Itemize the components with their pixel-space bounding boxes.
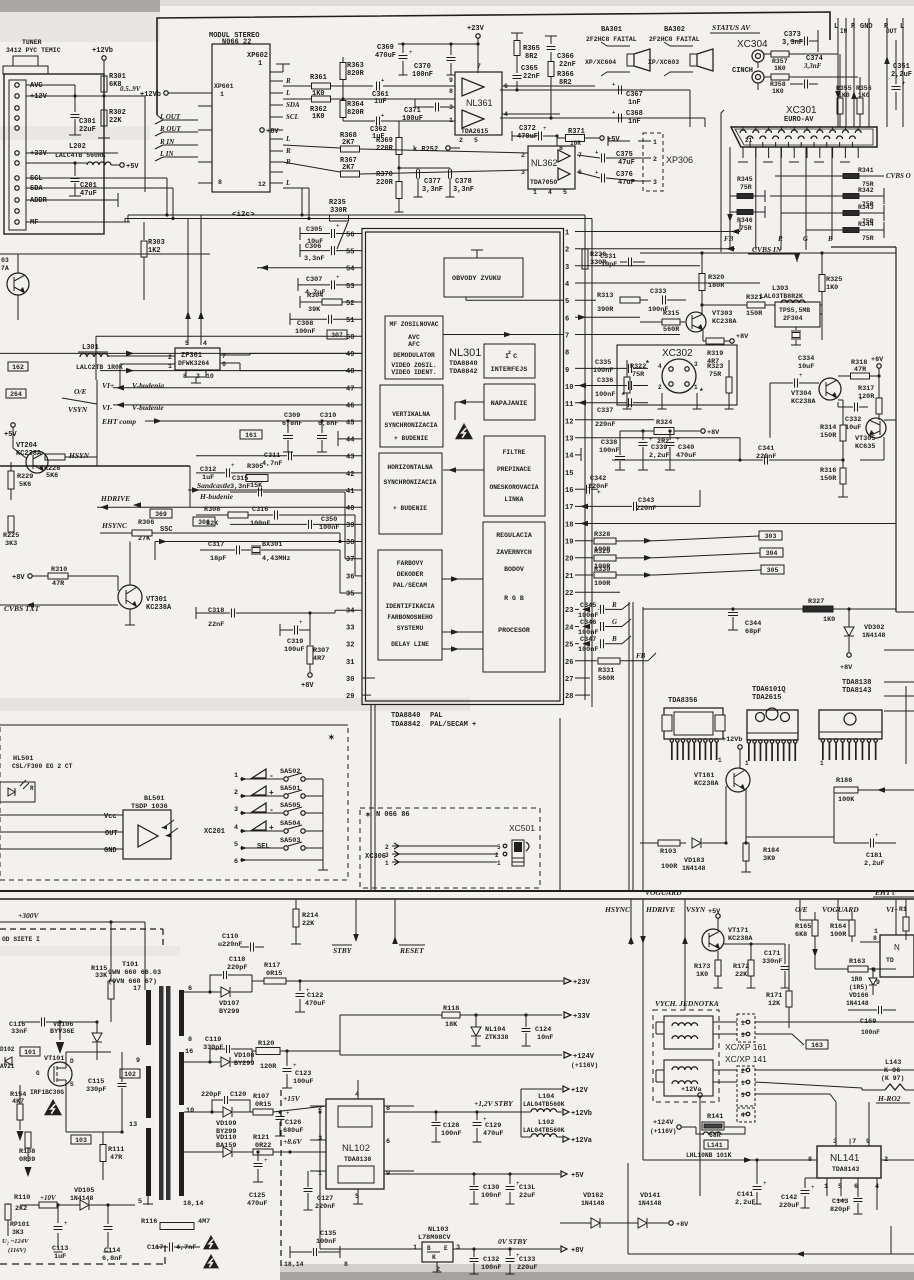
- svg-text:|7: |7: [848, 1138, 856, 1146]
- svg-text:DEMODULATOR: DEMODULATOR: [393, 352, 435, 359]
- svg-text:N 066 86: N 066 86: [376, 811, 410, 819]
- svg-text:330pF: 330pF: [203, 1044, 223, 1052]
- svg-text:VIDEO ZOSIL.: VIDEO ZOSIL.: [391, 362, 436, 369]
- wire +5V row with L202: [26, 162, 87, 164]
- svg-text:U₂ ~124V: U₂ ~124V: [2, 1238, 29, 1245]
- svg-text:TDA7050: TDA7050: [530, 179, 557, 186]
- +8V terminal R324: [674, 430, 700, 432]
- svg-text:R325: R325: [826, 276, 842, 284]
- resistor R362: [312, 96, 331, 102]
- svg-text:VSYN: VSYN: [68, 405, 88, 414]
- svg-text:HSYN: HSYN: [68, 451, 90, 460]
- svg-text:HORIZONTALNA: HORIZONTALNA: [387, 464, 433, 471]
- svg-text:+23V: +23V: [467, 25, 485, 33]
- svg-text:16: 16: [185, 1048, 193, 1056]
- svg-text:49: 49: [346, 351, 354, 359]
- svg-text:10: 10: [565, 384, 573, 392]
- svg-text:+12Vb: +12Vb: [571, 1110, 592, 1118]
- wire pin34 from junction: [310, 612, 335, 614]
- wire VT181 out right: [746, 836, 834, 838]
- svg-text:L301: L301: [82, 344, 99, 352]
- box OBVODY ZVUKU: [444, 258, 523, 297]
- svg-text:+8V: +8V: [676, 1221, 689, 1229]
- svg-text:304: 304: [766, 550, 778, 557]
- wire L row: [283, 98, 312, 100]
- transistor VT305: [866, 418, 886, 438]
- box VERTIKALNA: [380, 385, 443, 447]
- svg-text:C316: C316: [252, 506, 268, 514]
- svg-text:29: 29: [346, 693, 354, 701]
- svg-text:2: 2: [653, 156, 657, 163]
- svg-text:C318: C318: [208, 607, 224, 615]
- svg-text:180R: 180R: [708, 282, 725, 290]
- +8V terminal VT304: [877, 364, 881, 368]
- wire XP602 pin12 to bus verticals: [283, 187, 309, 189]
- svg-text:XP/XC603: XP/XC603: [648, 59, 679, 66]
- resistor R331 pin26 FB: [575, 660, 597, 662]
- svg-text:NL361: NL361: [466, 98, 493, 108]
- IC ZF301 box: [175, 348, 220, 370]
- svg-text:330R: 330R: [330, 207, 348, 215]
- svg-text:R324: R324: [656, 419, 672, 427]
- svg-text:IDENTIFIKACIA: IDENTIFIKACIA: [385, 603, 434, 610]
- svg-text:CSL/F300 EG 2 CT: CSL/F300 EG 2 CT: [12, 763, 73, 770]
- svg-text:VD107: VD107: [219, 1000, 239, 1008]
- wire +12Va terminal: [698, 1093, 702, 1097]
- svg-text:SCL: SCL: [286, 113, 299, 121]
- svg-text:H-RO2: H-RO2: [877, 1094, 901, 1103]
- svg-text:150R: 150R: [746, 310, 763, 318]
- svg-text:R173: R173: [694, 963, 710, 971]
- svg-text:+8V: +8V: [871, 356, 884, 364]
- svg-text:5: 5: [138, 1198, 142, 1206]
- svg-text:HDRIVE: HDRIVE: [100, 494, 130, 503]
- svg-text:VD141: VD141: [640, 1192, 660, 1200]
- svg-text:3: 3: [741, 1092, 745, 1099]
- svg-text:75R: 75R: [740, 184, 752, 191]
- svg-text:*: *: [645, 360, 650, 369]
- wire VT101 drain: [65, 1052, 67, 1060]
- svg-text:4: 4: [741, 1112, 745, 1119]
- svg-text:100nF: 100nF: [250, 520, 270, 528]
- svg-text:C365: C365: [521, 65, 538, 73]
- svg-text:53: 53: [346, 283, 354, 291]
- IC NL301 main rectangle: [362, 229, 564, 705]
- svg-text:0R15: 0R15: [255, 1101, 271, 1109]
- svg-text:+300V: +300V: [18, 911, 40, 920]
- svg-text:21: 21: [745, 137, 753, 144]
- connector XP306 dashed box: [643, 133, 663, 191]
- wire AVC: [26, 84, 75, 86]
- svg-text:3: 3: [694, 361, 698, 368]
- N06686 dashed box: [360, 808, 540, 888]
- wires coils to connectors: [713, 1021, 737, 1023]
- resistor R363: [340, 63, 346, 80]
- svg-text:18pF: 18pF: [210, 555, 226, 563]
- svg-text:XC304: XC304: [737, 39, 768, 50]
- svg-text:C171: C171: [764, 950, 780, 958]
- svg-text:R344: R344: [858, 221, 874, 228]
- svg-text:R: R: [285, 77, 291, 85]
- svg-text:+12Va: +12Va: [571, 1137, 593, 1145]
- transistor VT304: [819, 378, 841, 400]
- resistor R302: [101, 110, 107, 126]
- svg-text:8: 8: [188, 1036, 192, 1044]
- svg-text:LALC2TB 1R0K: LALC2TB 1R0K: [76, 364, 123, 371]
- svg-text:68pF: 68pF: [745, 628, 761, 636]
- svg-text:100uF: 100uF: [284, 646, 304, 654]
- svg-text:AV21: AV21: [0, 1063, 15, 1070]
- svg-text:4: 4: [658, 363, 662, 370]
- ground R302: [103, 126, 105, 138]
- svg-text:39: 39: [346, 522, 354, 530]
- svg-text:303: 303: [765, 533, 777, 540]
- svg-text:KC238A: KC238A: [791, 398, 816, 406]
- svg-text:100nF: 100nF: [481, 1264, 501, 1272]
- svg-text:C343: C343: [638, 497, 654, 505]
- svg-text:TDA2615: TDA2615: [461, 128, 488, 135]
- svg-text:8: 8: [873, 935, 877, 942]
- svg-text:XC306: XC306: [365, 853, 386, 861]
- svg-text:R363: R363: [347, 62, 364, 70]
- svg-text:SYNCHRONIZACIA: SYNCHRONIZACIA: [384, 479, 437, 486]
- netbox 102: [120, 1069, 140, 1078]
- svg-text:H-budenie: H-budenie: [199, 492, 234, 501]
- svg-text:R364: R364: [347, 101, 364, 109]
- svg-text:163: 163: [811, 1042, 823, 1049]
- svg-text:C115: C115: [88, 1078, 104, 1086]
- rgb collector verticals: [628, 602, 630, 890]
- svg-text:0R15: 0R15: [266, 970, 282, 978]
- svg-text:8R2: 8R2: [525, 53, 538, 61]
- svg-text:R308: R308: [204, 506, 220, 514]
- svg-text:1: 1: [874, 928, 878, 935]
- svg-text:C143: C143: [832, 1198, 848, 1206]
- svg-text:13: 13: [565, 436, 573, 444]
- netbox 163: [806, 1040, 828, 1049]
- svg-text:R111: R111: [108, 1146, 124, 1154]
- svg-text:STBY: STBY: [333, 946, 353, 955]
- svg-text:R341: R341: [858, 167, 874, 174]
- NL362 triangles: [558, 150, 570, 162]
- svg-text:L: L: [285, 179, 290, 187]
- +12Vb terminal at XP601: [164, 91, 168, 95]
- svg-text:1: 1: [533, 189, 537, 196]
- svg-text:*: *: [699, 388, 704, 397]
- svg-text:5K6: 5K6: [19, 481, 31, 489]
- svg-text:BA302: BA302: [664, 26, 685, 34]
- package TDA8138 pins: [821, 739, 824, 742]
- speaker connect marks 603: [664, 42, 670, 46]
- svg-text:LHL10NB 101K: LHL10NB 101K: [686, 1152, 732, 1159]
- svg-text:RESET: RESET: [399, 946, 424, 955]
- VYCH dashed box: [653, 1010, 719, 1102]
- wire XC141 pin1 to L143: [755, 1082, 862, 1088]
- svg-text:R358: R358: [770, 81, 786, 88]
- svg-text:54: 54: [346, 266, 354, 274]
- netbox 305: [761, 565, 784, 574]
- diode VD109: [223, 1107, 232, 1117]
- svg-text:L104: L104: [538, 1093, 554, 1101]
- svg-text:*: *: [621, 392, 626, 401]
- svg-text:C120: C120: [230, 1091, 246, 1099]
- svg-text:R172: R172: [733, 963, 749, 971]
- vertical bus x560: [559, 718, 561, 890]
- svg-text:+8V: +8V: [707, 429, 720, 437]
- svg-text:FB: FB: [636, 652, 646, 660]
- svg-text:33nF: 33nF: [11, 1028, 27, 1036]
- capacitor C367: [618, 86, 620, 95]
- svg-text:BY299: BY299: [219, 1008, 239, 1016]
- svg-text:3: 3: [653, 179, 657, 186]
- svg-text:BA301: BA301: [601, 26, 622, 34]
- svg-text:+5V: +5V: [607, 136, 620, 144]
- svg-text:3,3nF: 3,3nF: [782, 39, 803, 47]
- svg-text:6K8: 6K8: [795, 931, 807, 939]
- svg-text:18,14: 18,14: [284, 1261, 304, 1268]
- svg-text:C133: C133: [519, 1256, 535, 1264]
- wire VT101 row down: [66, 1131, 122, 1133]
- svg-text:+: +: [516, 1180, 520, 1187]
- svg-text:2: 2: [741, 1068, 745, 1075]
- svg-text:24: 24: [565, 624, 573, 632]
- resistor R344: [843, 228, 859, 233]
- svg-text:+23V: +23V: [573, 979, 591, 987]
- package TDA8356 body: [664, 708, 723, 739]
- box HORIZONTALNA: [379, 453, 442, 534]
- svg-text:2,2uF: 2,2uF: [649, 452, 669, 460]
- wire pin1: [575, 231, 740, 233]
- svg-text:TDA8840: TDA8840: [449, 360, 478, 368]
- svg-text:+ BUDENIE: + BUDENIE: [393, 505, 427, 512]
- svg-text:+5V: +5V: [126, 163, 139, 171]
- svg-text:51: 51: [346, 317, 354, 325]
- svg-text:ZF301: ZF301: [181, 352, 202, 360]
- SCART bottom pin row: [747, 136, 753, 139]
- svg-text:3: 3: [456, 1244, 460, 1252]
- svg-text:K 96: K 96: [884, 1067, 900, 1075]
- svg-text:7: 7: [222, 353, 226, 360]
- svg-text:C371: C371: [404, 107, 421, 115]
- svg-text:XC/XP 141: XC/XP 141: [725, 1054, 767, 1064]
- svg-text:AFC: AFC: [408, 341, 420, 348]
- svg-text:R319: R319: [707, 350, 723, 358]
- svg-text:+15V: +15V: [283, 1094, 301, 1103]
- svg-text:+124V: +124V: [573, 1053, 595, 1061]
- svg-text:C125: C125: [249, 1192, 265, 1200]
- svg-text:XC/XP 161: XC/XP 161: [725, 1042, 767, 1052]
- svg-text:+8V: +8V: [571, 1247, 584, 1255]
- netbox 304: [760, 548, 783, 557]
- svg-text:470uF: 470uF: [517, 133, 538, 141]
- NL103 wires: [320, 1248, 422, 1250]
- jack hook: [526, 842, 529, 851]
- svg-text:560R: 560R: [663, 326, 680, 334]
- svg-text:VD302: VD302: [864, 624, 884, 632]
- wire pin18 long: [575, 523, 896, 525]
- svg-text:E: E: [444, 1245, 448, 1252]
- svg-text:B: B: [611, 635, 617, 643]
- svg-text:TUNER: TUNER: [22, 39, 42, 46]
- wire pin3: [575, 265, 700, 267]
- rgb slant joins: [622, 603, 630, 609]
- svg-text:6: 6: [234, 858, 238, 866]
- NL141 top pin wires: [835, 1102, 837, 1146]
- svg-text:+: +: [299, 619, 303, 626]
- op-amp NL361 triangles: [462, 78, 484, 96]
- svg-text:K: K: [432, 1254, 436, 1261]
- wire pin40: [97, 506, 362, 508]
- svg-text:D: D: [70, 1058, 74, 1065]
- svg-text:(+116V): (+116V): [650, 1128, 676, 1135]
- XP306 pins: [638, 140, 651, 142]
- svg-text:C123: C123: [295, 1070, 311, 1078]
- svg-text:0V STBY: 0V STBY: [498, 1237, 528, 1246]
- wire +5V row: [384, 1173, 560, 1175]
- wire pin47: [113, 387, 362, 389]
- svg-text:+: +: [649, 436, 653, 443]
- connector XC/XP161 dashed: [737, 1014, 755, 1042]
- resistor R225: [8, 516, 14, 532]
- svg-text:+: +: [483, 1116, 487, 1123]
- svg-text:PAL/SECAM +: PAL/SECAM +: [430, 721, 476, 729]
- svg-text:R304: R304: [307, 292, 323, 300]
- svg-text:R184: R184: [763, 847, 779, 855]
- svg-text:VT301: VT301: [146, 596, 167, 604]
- wire R301-R302: [103, 92, 105, 110]
- svg-text:L202: L202: [69, 143, 86, 151]
- diode VD107: [221, 987, 230, 997]
- svg-text:TDA8356: TDA8356: [668, 697, 697, 705]
- resistor R341: [843, 174, 859, 179]
- svg-text:VOGUARD: VOGUARD: [822, 905, 859, 914]
- svg-text:R306: R306: [138, 519, 154, 527]
- svg-text:AVC: AVC: [30, 82, 43, 90]
- svg-text:102: 102: [124, 1071, 136, 1078]
- svg-text:10: 10: [186, 1107, 194, 1115]
- svg-text:TPS5,5MB: TPS5,5MB: [779, 307, 810, 314]
- svg-text:LAL03TB8R2K: LAL03TB8R2K: [760, 293, 803, 300]
- svg-text:C376: C376: [616, 171, 633, 179]
- svg-text:100nF: 100nF: [595, 391, 615, 399]
- svg-text:SYSTEMU: SYSTEMU: [397, 625, 424, 632]
- svg-text:C335: C335: [595, 359, 611, 367]
- svg-text:KC238A: KC238A: [728, 935, 753, 943]
- resistor R301: [103, 60, 105, 75]
- crystal below TPS: [795, 327, 797, 330]
- svg-text:7A: 7A: [1, 265, 9, 272]
- svg-text:+8V: +8V: [840, 664, 853, 672]
- svg-text:100nF: 100nF: [316, 1238, 336, 1246]
- svg-text:4: 4: [548, 189, 552, 196]
- svg-text:ZAVERNYCH: ZAVERNYCH: [496, 549, 532, 556]
- svg-text:C310: C310: [320, 412, 336, 420]
- svg-text:+: +: [409, 49, 413, 56]
- svg-text:VT304: VT304: [791, 390, 811, 398]
- svg-text:100uF: 100uF: [402, 115, 423, 123]
- speaker connect marks 604: [601, 42, 607, 46]
- svg-text:VD108: VD108: [234, 1052, 254, 1060]
- svg-text:34: 34: [346, 607, 354, 615]
- IC NL141 box: [817, 1146, 881, 1178]
- svg-text:O/E: O/E: [795, 905, 808, 914]
- svg-text:470uF: 470uF: [676, 452, 696, 460]
- svg-text:9: 9: [565, 367, 569, 375]
- svg-text:B: B: [827, 235, 833, 243]
- svg-text:47R: 47R: [110, 1154, 123, 1162]
- connector XC/XP141 dashed: [737, 1066, 755, 1106]
- svg-text:u220nF: u220nF: [218, 941, 242, 949]
- wire +33V rail: [340, 1014, 442, 1016]
- svg-text:2: 2: [658, 384, 662, 391]
- resistor R228: [45, 454, 65, 460]
- wire pin2: [575, 248, 735, 250]
- svg-text:CVBS O: CVBS O: [886, 172, 911, 180]
- svg-text:✶: ✶: [328, 734, 335, 743]
- svg-text:+: +: [597, 489, 601, 496]
- svg-text:C306: C306: [305, 243, 321, 251]
- svg-text:22nF: 22nF: [208, 621, 224, 629]
- svg-text:6: 6: [854, 1183, 858, 1191]
- svg-text:KC238A: KC238A: [694, 780, 719, 788]
- tuner pin circles: [15, 83, 19, 87]
- svg-text:7: 7: [477, 63, 481, 70]
- svg-text:5: 5: [565, 298, 569, 306]
- svg-text:1K0: 1K0: [823, 616, 835, 624]
- svg-text:75R: 75R: [709, 371, 722, 379]
- svg-text:LAL04TB560K: LAL04TB560K: [523, 1127, 565, 1134]
- svg-text:R303: R303: [148, 239, 165, 247]
- svg-text:C301: C301: [79, 118, 96, 126]
- svg-text:1K0: 1K0: [772, 88, 784, 95]
- svg-text:C127: C127: [317, 1195, 333, 1203]
- svg-text:C319: C319: [287, 638, 303, 646]
- svg-text:TDA8840: TDA8840: [391, 712, 420, 720]
- svg-text:56: 56: [346, 232, 354, 240]
- svg-text:C13L: C13L: [519, 1184, 535, 1192]
- svg-text:HSYNC: HSYNC: [604, 905, 631, 914]
- NL141 bottom pin wires: [826, 1178, 828, 1196]
- svg-text:N: N: [894, 943, 900, 952]
- svg-text:82K: 82K: [206, 520, 219, 528]
- svg-text:5K6: 5K6: [46, 472, 58, 480]
- svg-text:XC301: XC301: [786, 105, 817, 116]
- svg-text:TDA6101Q: TDA6101Q: [752, 686, 786, 694]
- box REGULACIA RGB: [483, 522, 545, 672]
- wire pin46: [113, 404, 362, 406]
- svg-text:22: 22: [565, 590, 573, 598]
- svg-text:C340: C340: [678, 444, 694, 452]
- svg-text:BL501: BL501: [144, 795, 164, 803]
- resistor R343: [843, 211, 859, 216]
- svg-text:+33V: +33V: [30, 150, 48, 158]
- svg-text:LALC4TB 560RK: LALC4TB 560RK: [55, 152, 106, 159]
- svg-text:NL362: NL362: [531, 158, 558, 168]
- svg-text:820pF: 820pF: [830, 1206, 850, 1214]
- svg-text:R301: R301: [109, 73, 126, 81]
- svg-text:VD110: VD110: [216, 1134, 236, 1142]
- svg-text:L78M08CV: L78M08CV: [418, 1234, 452, 1242]
- wire VT305 emitter: [883, 437, 885, 460]
- svg-text:330nF: 330nF: [762, 958, 782, 966]
- svg-text:12: 12: [565, 418, 573, 426]
- svg-text:R323: R323: [707, 363, 723, 371]
- svg-text:30: 30: [346, 676, 354, 684]
- svg-text:G: G: [612, 618, 617, 626]
- svg-text:Vcc: Vcc: [104, 813, 117, 821]
- svg-text:NL103: NL103: [428, 1226, 448, 1234]
- svg-text:V-budenie: V-budenie: [132, 403, 164, 412]
